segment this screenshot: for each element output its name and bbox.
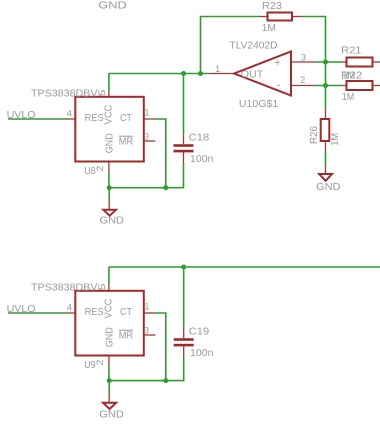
svg-text:1: 1 — [144, 302, 149, 313]
svg-text:4: 4 — [67, 302, 72, 313]
svg-text:1M: 1M — [342, 91, 355, 103]
svg-text:VCC: VCC — [103, 104, 115, 124]
svg-text:2: 2 — [95, 166, 106, 172]
svg-text:VCC: VCC — [103, 298, 115, 318]
svg-text:C19: C19 — [189, 326, 210, 338]
svg-text:100n: 100n — [190, 153, 214, 165]
svg-text:MR: MR — [119, 329, 134, 341]
svg-text:R21: R21 — [341, 45, 362, 57]
svg-text:UVLO: UVLO — [7, 303, 36, 315]
svg-text:5: 5 — [97, 284, 108, 291]
svg-text:GND: GND — [99, 409, 124, 421]
svg-text:3: 3 — [144, 325, 149, 336]
svg-text:1M: 1M — [262, 22, 276, 34]
svg-text:MR: MR — [119, 135, 134, 147]
svg-text:TPS3838DBV: TPS3838DBV — [31, 88, 98, 100]
svg-text:C18: C18 — [189, 132, 210, 144]
svg-text:1: 1 — [215, 64, 220, 75]
svg-text:1: 1 — [144, 108, 149, 119]
svg-text:GND: GND — [104, 327, 116, 347]
svg-text:2: 2 — [95, 360, 106, 366]
svg-text:CT: CT — [120, 112, 132, 124]
svg-text:TLV2402D: TLV2402D — [230, 40, 278, 52]
svg-text:1M: 1M — [343, 69, 356, 81]
svg-text:3: 3 — [301, 53, 306, 64]
svg-text:U10G$1: U10G$1 — [239, 98, 278, 110]
svg-text:GND: GND — [104, 133, 116, 153]
svg-text:UVLO: UVLO — [7, 109, 36, 121]
svg-text:GND: GND — [100, 214, 125, 226]
svg-text:GND: GND — [316, 181, 341, 193]
svg-text:GND: GND — [98, 0, 127, 12]
svg-text:2: 2 — [300, 75, 305, 86]
svg-text:CT: CT — [120, 306, 132, 318]
svg-text:-: - — [277, 80, 281, 92]
svg-text:OUT: OUT — [241, 68, 264, 80]
svg-text:R23: R23 — [262, 0, 282, 12]
svg-text:RES: RES — [85, 306, 104, 318]
svg-text:4: 4 — [67, 108, 72, 119]
svg-text:3: 3 — [144, 131, 149, 142]
svg-text:R26: R26 — [308, 126, 320, 144]
svg-text:100n: 100n — [190, 347, 214, 359]
svg-text:TPS3838DBV: TPS3838DBV — [31, 282, 98, 294]
svg-text:1M: 1M — [329, 133, 341, 146]
svg-text:RES: RES — [85, 112, 104, 124]
svg-text:5: 5 — [97, 90, 108, 97]
svg-text:+: + — [274, 57, 280, 69]
